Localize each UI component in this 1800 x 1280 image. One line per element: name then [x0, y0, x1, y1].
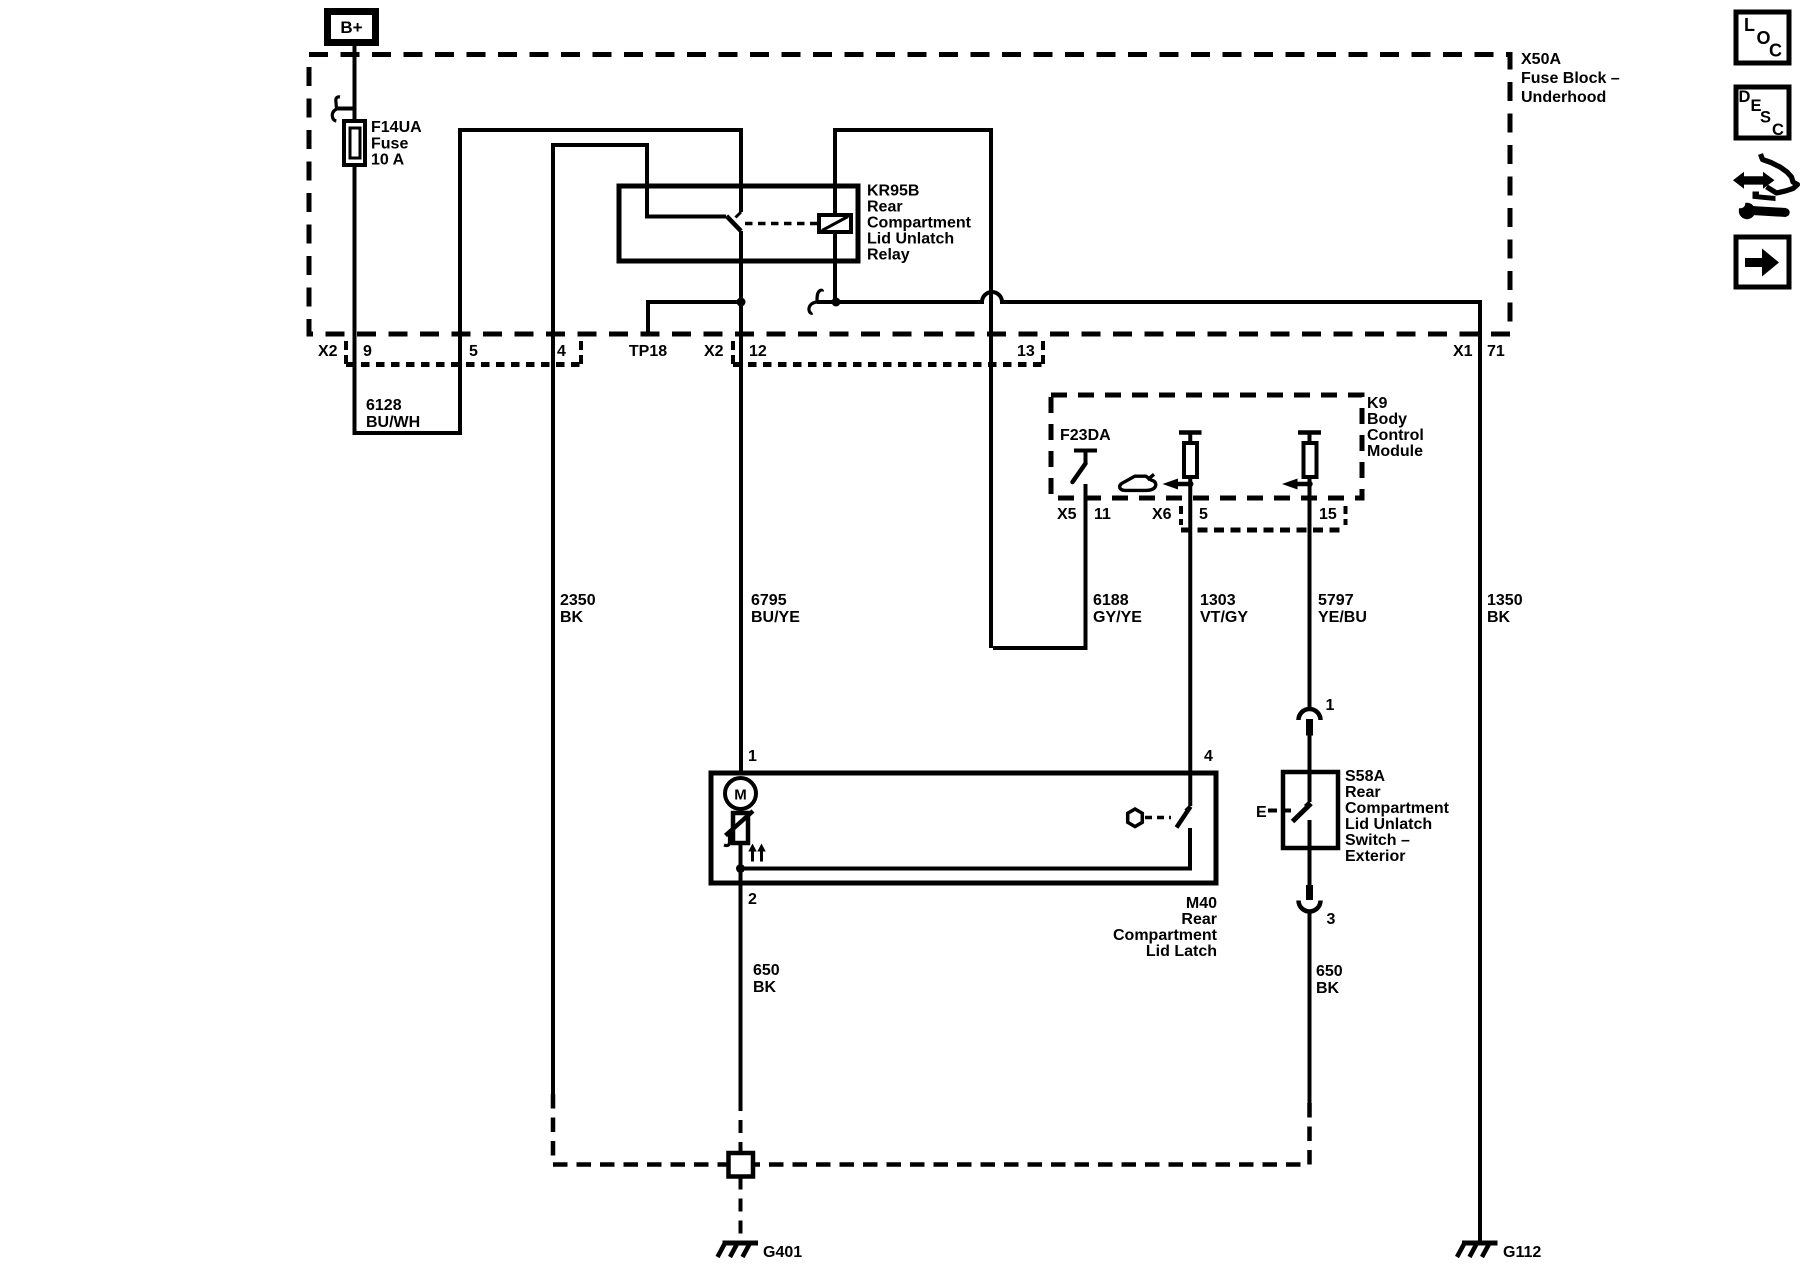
splice square connector on ground bus — [729, 1153, 754, 1177]
connector X2 dotted underline (left) — [346, 362, 581, 367]
relay switch arm — [727, 216, 742, 231]
svg-text:B+: B+ — [340, 18, 362, 37]
wire connector to S58A box — [1308, 735, 1312, 772]
wire X2 pin 4 feed to relay fixed contact — [553, 145, 726, 217]
label 1303 VT/GY — [1200, 592, 1248, 626]
svg-text:2: 2 — [748, 891, 757, 908]
svg-text:10 A: 10 A — [371, 152, 405, 169]
svg-text:YE/BU: YE/BU — [1318, 609, 1367, 626]
wire 650 BK dashed to splice square — [739, 1098, 743, 1152]
relay switch fixed contact tick — [736, 212, 742, 218]
wire 5797 YE/BU BCM pin 15 to S58A pin 1 — [1308, 477, 1312, 709]
svg-text:Rear: Rear — [867, 199, 903, 216]
svg-text:D: D — [1739, 88, 1751, 106]
svg-text:M40: M40 — [1186, 895, 1217, 912]
svg-text:BK: BK — [1316, 980, 1340, 997]
svg-text:Control: Control — [1367, 427, 1424, 444]
svg-text:Compartment: Compartment — [867, 215, 972, 232]
wire relay coil bottom to bus — [833, 232, 837, 302]
svg-text:Compartment: Compartment — [1345, 800, 1450, 817]
relay coil KR95B — [819, 215, 851, 232]
inline connector S58A pin 3 — [1299, 885, 1321, 912]
label 6795 BU/YE — [751, 592, 800, 626]
svg-text:BK: BK — [1487, 609, 1511, 626]
svg-text:S: S — [1760, 109, 1771, 127]
icon DESC — [1736, 87, 1789, 139]
svg-text:71: 71 — [1487, 343, 1505, 360]
wire relay common to X2 pin 12 — [739, 231, 743, 365]
connector X2 right bracket tick — [731, 341, 735, 365]
svg-text:F23DA: F23DA — [1060, 427, 1111, 444]
connector X2 left bracket tick — [344, 341, 348, 365]
svg-text:X50A: X50A — [1521, 51, 1561, 68]
svg-text:1350: 1350 — [1487, 592, 1523, 609]
svg-text:VT/GY: VT/GY — [1200, 609, 1248, 626]
svg-text:Rear: Rear — [1181, 911, 1217, 928]
svg-text:4: 4 — [1204, 748, 1213, 765]
car trunk icon — [1120, 474, 1156, 490]
label K9 Body Control Module — [1367, 395, 1424, 460]
wire dashed splice to ground G401 — [739, 1177, 743, 1240]
svg-text:Rear: Rear — [1345, 784, 1381, 801]
svg-text:BK: BK — [560, 609, 584, 626]
svg-text:4: 4 — [557, 343, 566, 360]
svg-text:13: 13 — [1017, 343, 1035, 360]
label M40 Rear Compartment Lid Latch — [1113, 895, 1218, 960]
label F14UA Fuse 10 A — [371, 119, 422, 169]
svg-text:X6: X6 — [1152, 506, 1172, 523]
wire 2350 BK X2 pin 4 down — [551, 145, 555, 1094]
svg-text:F14UA: F14UA — [371, 119, 422, 136]
resistor BCM switch input pull — [1298, 433, 1321, 478]
wire pin 5 riser — [458, 130, 462, 435]
svg-text:Underhood: Underhood — [1521, 89, 1606, 106]
svg-text:X2: X2 — [704, 343, 724, 360]
bus clip at relay — [809, 290, 835, 313]
wire 650 BK S58A pin 3 down — [1308, 912, 1312, 1104]
svg-text:X1: X1 — [1453, 343, 1473, 360]
inline connector S58A pin 1 — [1299, 709, 1321, 736]
twin up arrows — [748, 844, 765, 862]
svg-text:KR95B: KR95B — [867, 183, 919, 200]
svg-text:Lid Unlatch: Lid Unlatch — [1345, 816, 1432, 833]
connector X6 bracket tick — [1179, 506, 1183, 525]
label S58A Rear Compartment Lid Unlatch Switch - Exterior — [1345, 768, 1450, 865]
connector X2 left bracket end tick — [579, 341, 583, 365]
relay switch to coil dashed link — [745, 222, 817, 226]
svg-text:11: 11 — [1094, 506, 1111, 523]
fuse F14UA — [344, 121, 365, 165]
svg-text:6795: 6795 — [751, 592, 787, 609]
svg-text:K9: K9 — [1367, 395, 1388, 412]
label 650 BK (M40 pin 2) — [753, 962, 780, 996]
svg-text:1: 1 — [748, 748, 757, 765]
power symbol B+ — [328, 12, 376, 43]
svg-text:X2: X2 — [318, 343, 338, 360]
svg-text:Relay: Relay — [867, 247, 910, 264]
E dashed link — [1268, 809, 1291, 813]
wire 6795 BU/YE relay pin 12 to M40 pin 1 — [739, 365, 743, 775]
svg-text:BK: BK — [753, 979, 777, 996]
relay KR95B box — [619, 186, 858, 261]
icon LOC — [1736, 12, 1789, 63]
wire top run pin 5 to relay switch — [458, 128, 741, 132]
wire TP18 stub — [648, 302, 741, 334]
S58A switch — [1293, 772, 1312, 885]
svg-text:5797: 5797 — [1318, 592, 1354, 609]
resistor BCM output driver — [1179, 433, 1202, 478]
svg-text:2350: 2350 — [560, 592, 596, 609]
svg-text:BU/WH: BU/WH — [366, 414, 420, 431]
icon arrow (next page) — [1736, 237, 1789, 287]
svg-text:Module: Module — [1367, 443, 1423, 460]
svg-text:G112: G112 — [1503, 1244, 1541, 1261]
icon harness repair (double arrow, boundary, wrench) — [1733, 154, 1798, 219]
M40 internal wire to switch — [741, 828, 1191, 869]
fuse bus clip — [332, 97, 354, 121]
hexagon latch actuator — [1128, 809, 1143, 827]
svg-text:5: 5 — [1199, 506, 1208, 523]
svg-text:X5: X5 — [1057, 506, 1077, 523]
label 6188 GY/YE — [1093, 592, 1142, 626]
svg-text:Switch –: Switch – — [1345, 832, 1410, 849]
svg-text:12: 12 — [749, 343, 767, 360]
connector X6 dotted underline — [1181, 528, 1346, 533]
junction coil to bus — [832, 298, 841, 307]
svg-text:BU/YE: BU/YE — [751, 609, 800, 626]
svg-text:Fuse: Fuse — [371, 136, 408, 153]
svg-text:5: 5 — [469, 343, 478, 360]
label X50A Fuse Block - Underhood — [1521, 51, 1620, 106]
connector X6 bracket end tick — [1344, 506, 1348, 525]
svg-text:650: 650 — [753, 962, 780, 979]
svg-text:Fuse Block –: Fuse Block – — [1521, 70, 1620, 87]
svg-text:C: C — [1772, 121, 1784, 139]
dashed link hexagon to switch — [1145, 816, 1171, 820]
svg-text:15: 15 — [1319, 506, 1337, 523]
wire relay switch common drop — [739, 128, 743, 212]
svg-text:M: M — [734, 787, 747, 804]
connector X2 right bracket end tick — [1041, 341, 1045, 365]
svg-text:Exterior: Exterior — [1345, 848, 1405, 865]
arrow BCM switch input sense — [1282, 479, 1313, 490]
ground G401 — [718, 1243, 759, 1257]
fuse block X50A dashed box — [309, 55, 1510, 335]
svg-text:9: 9 — [363, 343, 372, 360]
wire B+ to X2 pin 9 (through fuse) — [353, 46, 357, 433]
svg-text:S58A: S58A — [1345, 768, 1385, 785]
label KR95B Rear Compartment Lid Unlatch Relay — [867, 183, 972, 264]
label 2350 BK — [560, 592, 596, 626]
svg-text:650: 650 — [1316, 963, 1343, 980]
svg-text:3: 3 — [1327, 911, 1336, 928]
svg-text:1: 1 — [1326, 697, 1335, 714]
ground G112 — [1457, 1243, 1498, 1257]
M40 latch switch — [1177, 806, 1191, 828]
wire bus to X1 pin 71 / 1350 BK to ground — [835, 292, 1480, 1243]
svg-text:G401: G401 — [763, 1244, 802, 1261]
wire 6128 loop bottom pin 9 to pin 5 — [353, 431, 461, 435]
switch F23DA — [1073, 451, 1098, 483]
svg-text:Lid Unlatch: Lid Unlatch — [867, 231, 954, 248]
svg-text:E: E — [1256, 804, 1267, 821]
label 6128 BU/WH — [366, 397, 420, 431]
wire relay coil top to X2 pin 13 and down — [835, 130, 991, 648]
wire 2350 BK dashed to splice — [553, 1094, 728, 1165]
svg-text:TP18: TP18 — [629, 343, 667, 360]
wire 6188 GY/YE BCM pin 11 drop to corner — [993, 484, 1086, 648]
label 5797 YE/BU — [1318, 592, 1367, 626]
svg-text:L: L — [1744, 15, 1755, 35]
svg-text:6128: 6128 — [366, 397, 402, 414]
svg-text:Lid Latch: Lid Latch — [1146, 943, 1217, 960]
connector X2 dotted underline (right) — [733, 362, 1043, 367]
svg-text:Body: Body — [1367, 411, 1407, 428]
arrow BCM output to trunk icon — [1163, 479, 1194, 490]
junction M40 internal — [736, 864, 745, 873]
svg-text:GY/YE: GY/YE — [1093, 609, 1142, 626]
svg-text:C: C — [1769, 41, 1782, 61]
wire 1303 VT/GY BCM pin 5 to M40 pin 4 — [1188, 477, 1192, 806]
label 650 BK (S58A) — [1316, 963, 1343, 997]
wire 650 BK dashed to splice — [753, 1103, 1310, 1165]
motor M — [725, 778, 756, 809]
wire M40 motor to pin 2 node — [739, 843, 743, 1098]
BCM K9 dashed box — [1051, 395, 1362, 498]
S58A box — [1283, 772, 1338, 848]
svg-text:6188: 6188 — [1093, 592, 1129, 609]
svg-text:Compartment: Compartment — [1113, 927, 1218, 944]
svg-text:1303: 1303 — [1200, 592, 1236, 609]
M40 Rear Compartment Lid Latch box — [711, 773, 1216, 883]
thermal element — [724, 809, 753, 846]
junction relay pin 12 / TP18 — [737, 298, 746, 307]
label 1350 BK — [1487, 592, 1523, 626]
